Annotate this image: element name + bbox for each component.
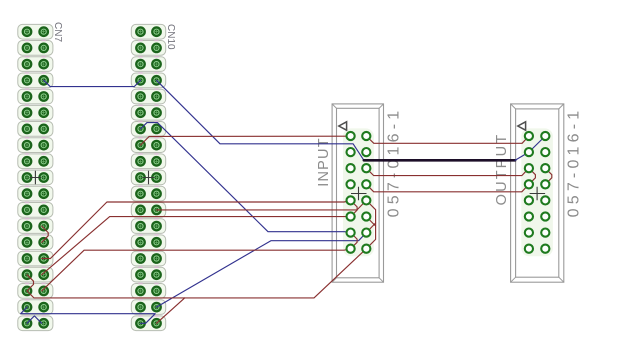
pin-1 marker X2 xyxy=(518,122,526,130)
wire N24 OUTPUT bulge R3-R4 xyxy=(545,168,552,184)
wire N21 INPUT bulge L7-L8 xyxy=(351,233,358,249)
connector CN7 xyxy=(18,24,53,330)
wire N10 INPUT-OUTPUT red xyxy=(366,168,529,175)
origin cross CN10 xyxy=(143,171,155,185)
svg-text:057-016-1: 057-016-1 xyxy=(385,107,402,218)
svg-text:INPUT: INPUT xyxy=(316,137,332,187)
pin-1 marker X1 xyxy=(339,122,347,130)
wire N12 CN10-INPUT red xyxy=(157,200,367,210)
origin cross CN7 xyxy=(30,171,41,185)
wire N4a CN7 bottom chevron blue xyxy=(27,316,42,323)
wire N7 OUTPUT blue xyxy=(515,136,545,160)
label 057-016-1 (X1) xyxy=(385,107,402,218)
wire N20b INPUT stub R7 xyxy=(366,223,375,233)
wire N8 CN10-INPUT red xyxy=(141,136,351,145)
wire N11 INPUT-OUTPUT red xyxy=(366,184,529,192)
pads X1 xyxy=(347,132,371,253)
wire N23 OUTPUT bulge L3-L4 xyxy=(529,168,536,184)
connector X1 box xyxy=(332,104,383,282)
svg-text:057-016-1: 057-016-1 xyxy=(566,107,583,218)
wire N20 INPUT chain R5-R8 xyxy=(366,200,375,248)
origin cross X1 xyxy=(351,187,367,201)
label 057-016-1 (X2) xyxy=(566,107,583,218)
wire N17 CN7 bulge R12-R13 xyxy=(42,226,49,242)
label OUTPUT xyxy=(494,133,510,206)
wire N15 CN7-INPUT red xyxy=(42,249,351,291)
svg-text:CN10: CN10 xyxy=(165,24,176,50)
label CN7 xyxy=(52,22,63,42)
wire N13 CN7-INPUT red xyxy=(42,201,351,259)
connector X2 box xyxy=(511,104,564,282)
wire N16a branch to CN10.R18 red xyxy=(157,298,185,323)
svg-text:CN7: CN7 xyxy=(52,22,63,42)
wire N2 CN10-INPUT blue xyxy=(141,123,351,233)
wire N6 thick bus xyxy=(364,159,515,162)
wire N5 CN10-junction blue xyxy=(157,80,364,160)
pads X2 xyxy=(525,132,550,253)
label CN10 xyxy=(165,24,176,50)
wire N18 CN7 bulge L15-L16 xyxy=(27,275,34,291)
wire N20a INPUT stub R6 xyxy=(366,217,375,226)
wire N19 INPUT bulge L5-L6 xyxy=(351,200,358,216)
label INPUT xyxy=(316,137,332,187)
wire N3 CN10-INPUT blue xyxy=(157,233,367,308)
connector CN10 xyxy=(131,24,165,330)
origin cross X2 xyxy=(530,187,546,201)
wire N9 INPUT-OUTPUT red xyxy=(366,136,529,143)
wire N1 CN7-CN10 blue xyxy=(44,80,141,86)
wire N4 CN7-CN10 blue xyxy=(21,307,156,323)
wire N16 CN7-INPUT red xyxy=(27,249,366,298)
wire N14 CN7-INPUT red xyxy=(42,217,351,275)
